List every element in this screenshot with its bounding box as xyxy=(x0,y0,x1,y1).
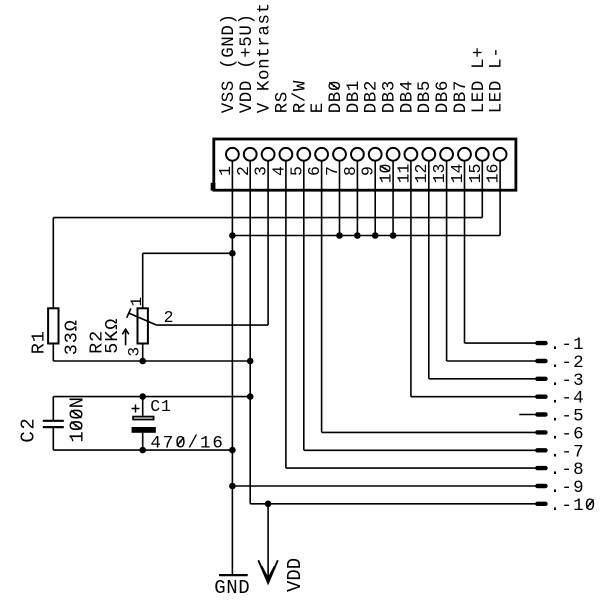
svg-text:33Ω: 33Ω xyxy=(62,319,83,355)
wire pot pin1 drop xyxy=(142,253,144,307)
svg-text:3: 3 xyxy=(126,347,144,357)
svg-text:R1: R1 xyxy=(29,330,50,354)
connector J1 pad 15 xyxy=(476,148,489,161)
svg-text:C1: C1 xyxy=(150,397,171,416)
output pad .-10 wire (VDD) xyxy=(250,503,537,505)
connector J1 polarity notch xyxy=(211,183,216,191)
svg-text:GND: GND xyxy=(214,577,250,599)
resistor R1 top lead xyxy=(52,218,54,309)
potentiometer R2 body xyxy=(138,308,148,343)
junction ground bus at pin 10 column xyxy=(390,232,397,239)
wire row B: C2 top to pin2 column xyxy=(53,396,250,398)
wire row C: C2 bottom to pin1 column xyxy=(53,449,232,451)
connector J1 pad 13 xyxy=(440,148,453,161)
svg-text:5KΩ: 5KΩ xyxy=(102,318,123,354)
slashed zero in 470/16 xyxy=(177,437,184,446)
svg-text:LED L-: LED L- xyxy=(487,47,507,114)
junction ground bus at pin 1 column xyxy=(229,232,236,239)
junction ground bus at pin 9 column xyxy=(372,232,379,239)
junction pot line at pin 1 column xyxy=(229,250,236,257)
connector J1 pad 6 xyxy=(315,148,328,161)
net V-Kontrast vertical (pin 3) xyxy=(267,161,269,325)
capacitor C1 positive plate xyxy=(133,417,154,420)
wire pin 12 DB5 down xyxy=(428,161,430,379)
net RS vertical (pin 4) xyxy=(285,161,287,468)
junction output 9 at GND column xyxy=(229,483,236,490)
potentiometer R2 bottom lead xyxy=(142,344,144,362)
wire pin 11 DB4 down xyxy=(410,161,412,397)
resistor R1 body xyxy=(48,308,58,343)
wire ground bus row xyxy=(232,235,500,237)
wire pot pin1 to GND column xyxy=(143,252,233,254)
supply VDD arrowhead xyxy=(258,560,277,583)
capacitor C1 plus sign xyxy=(132,408,140,410)
junction row B at C1 top xyxy=(139,393,146,400)
svg-text:1: 1 xyxy=(128,297,146,307)
svg-text:100N: 100N xyxy=(67,397,89,443)
connector J1 pad 10 xyxy=(387,148,400,161)
output pad .-1 wire (DB7) xyxy=(465,342,538,344)
junction row C at C1 bottom xyxy=(139,447,146,454)
capacitor C2 bottom lead xyxy=(52,427,54,450)
wire LED+ row: R1 top to pin 15 xyxy=(53,217,482,219)
ground symbol xyxy=(219,574,248,576)
resistor R1 bottom lead xyxy=(52,344,54,362)
slashed zeros in 100N xyxy=(71,422,82,430)
junction row B at pin 2 column xyxy=(247,393,254,400)
wire pin 9 DB2 to ground bus xyxy=(374,161,376,236)
output pad .-7 wire (R/W) xyxy=(304,449,538,451)
potentiometer R2 wiper arrow xyxy=(129,313,157,325)
connector J1 pad 9 xyxy=(369,148,382,161)
svg-text:.-10: .-10 xyxy=(550,496,597,516)
connector J1 pad 8 xyxy=(351,148,364,161)
supply VDD stem xyxy=(267,504,269,583)
connector J1 pad 3 xyxy=(262,148,275,161)
svg-text:2: 2 xyxy=(164,308,174,327)
connector J1 pad 4 xyxy=(280,148,293,161)
wire VDD row A: R1 bottom to pin2 column xyxy=(53,360,250,362)
wire pin 10 DB3 to ground bus xyxy=(392,161,394,236)
output pad .-8 wire (RS) xyxy=(286,467,537,469)
connector J1 pad 7 xyxy=(333,148,346,161)
junction ground bus at pin 7 column xyxy=(336,232,343,239)
net GND vertical (pin 1) xyxy=(231,161,233,575)
connector J1 pad 11 xyxy=(405,148,418,161)
output pad .-9 wire (GND) xyxy=(232,485,537,487)
junction output 10 at VDD arrow xyxy=(265,501,272,508)
wire pin 16 LED- down xyxy=(499,161,501,236)
junction row A at pin 2 column xyxy=(247,358,254,365)
junction ground bus at pin 8 column xyxy=(354,232,361,239)
slashed zero in DB0 label xyxy=(329,82,339,89)
connector J1 body xyxy=(214,139,516,190)
connector J1 pad 16 xyxy=(494,148,507,161)
connector J1 pad 1 xyxy=(226,148,239,161)
slashed zero in .-10 label xyxy=(587,500,594,509)
wire pin 8 DB1 to ground bus xyxy=(356,161,358,236)
connector J1 pad 12 xyxy=(422,148,435,161)
capacitor C1 top lead xyxy=(142,397,144,416)
wire pin 13 DB6 down xyxy=(446,161,448,361)
capacitor C2 plates xyxy=(43,420,64,422)
capacitor C1 bottom lead xyxy=(142,433,144,450)
output pad .-4 wire (DB4) xyxy=(411,396,537,398)
pot adjust arrow xyxy=(125,330,127,345)
wire wiper to V Kontrast xyxy=(157,324,268,326)
capacitor C1 negative plate xyxy=(132,427,156,433)
output pad .-3 wire (DB5) xyxy=(429,378,538,380)
wire pin 14 DB7 down xyxy=(464,161,466,343)
junction row C at pin 1 column xyxy=(229,447,236,454)
slashed zero in pin number 10 xyxy=(380,166,390,172)
capacitor C2 top lead xyxy=(52,397,54,421)
output pad .-2 wire (DB6) xyxy=(447,360,538,362)
connector J1 pad 2 xyxy=(244,148,257,161)
wire pin 15 LED+ down xyxy=(481,161,483,218)
net VDD vertical (pin 2) xyxy=(249,161,251,504)
connector J1 pad 5 xyxy=(297,148,310,161)
connector J1 pad 14 xyxy=(458,148,471,161)
svg-text:C2: C2 xyxy=(18,417,40,443)
net E vertical (pin 6) xyxy=(321,161,323,433)
svg-text:VDD: VDD xyxy=(284,558,306,592)
wire pin 7 DB0 to ground bus xyxy=(339,161,341,236)
net R/W vertical (pin 5) xyxy=(303,161,305,451)
svg-text:470/16: 470/16 xyxy=(150,433,224,453)
output pad .-5 wire ((n.c.)) xyxy=(519,414,537,416)
output pad .-6 wire (E) xyxy=(322,431,538,433)
junction row A at R2 bottom xyxy=(139,358,146,365)
